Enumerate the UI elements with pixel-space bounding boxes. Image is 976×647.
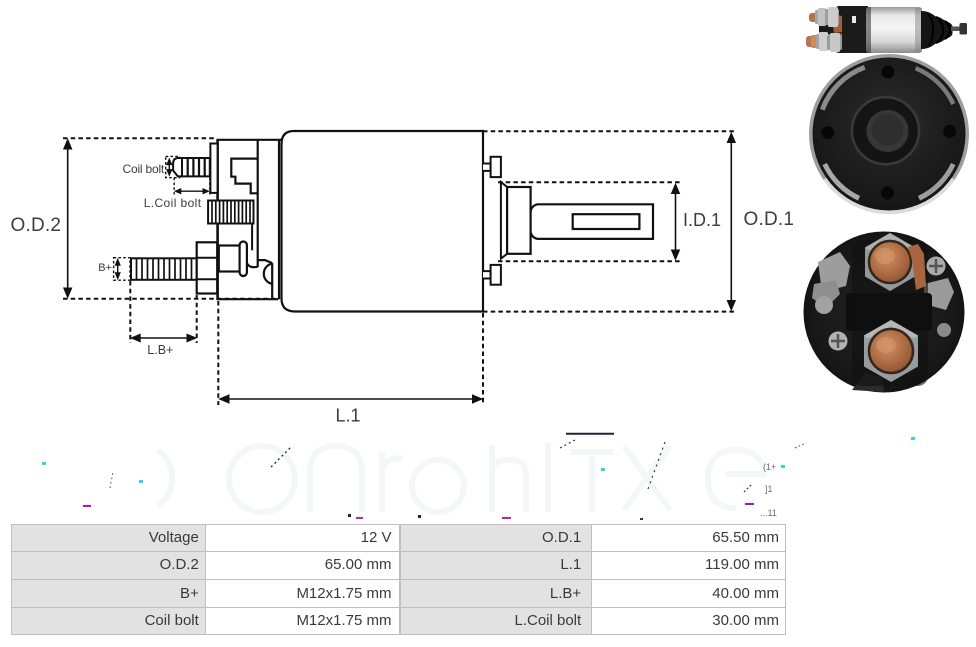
L.Coil bolt fixing thread xyxy=(208,201,253,224)
plunger lens bulge xyxy=(264,264,272,284)
L.1 right extension xyxy=(482,313,484,405)
shaft slot xyxy=(573,214,640,229)
flange top edge xyxy=(216,139,282,141)
copper plate on housing xyxy=(831,14,842,33)
photo 3 : solenoid front view xyxy=(804,232,965,393)
cap inner vertical xyxy=(257,140,259,267)
center block xyxy=(846,293,932,331)
L.B+ left extension xyxy=(129,281,131,343)
coil bolt thread lines xyxy=(188,158,205,176)
svg-text:B+: B+ xyxy=(98,262,112,274)
dim B+ xyxy=(117,263,119,275)
L.Coil bolt left extension xyxy=(173,178,175,195)
L.Coil bolt thread lines xyxy=(212,201,250,224)
coil bolt bracket tab xyxy=(210,144,217,193)
Coil bolt dashed gauge box xyxy=(166,156,180,177)
hex nut flats xyxy=(197,258,218,280)
dimension labels xyxy=(11,162,795,426)
flange bottom edge xyxy=(216,298,278,300)
O.D.2 bottom extension xyxy=(63,298,279,300)
top copper pin xyxy=(809,13,824,22)
dimension lines xyxy=(64,133,736,403)
svg-text:(1+: (1+ xyxy=(763,462,776,472)
dim L.B+ xyxy=(137,337,190,339)
I.D.1 bottom extension xyxy=(498,260,681,262)
plunger pin xyxy=(951,27,964,32)
bottom nuts xyxy=(816,34,830,49)
plunger shaft xyxy=(531,204,653,239)
svg-text:]1: ]1 xyxy=(765,484,773,494)
black switch housing xyxy=(819,6,868,53)
top nuts xyxy=(815,10,828,24)
bottom copper stud xyxy=(806,36,822,47)
B+ dashed gauge box xyxy=(114,258,130,281)
body outline xyxy=(282,131,484,312)
svg-text:L.B+: L.B+ xyxy=(147,343,173,357)
svg-text:O.D.1: O.D.1 xyxy=(744,209,795,230)
svg-text:Coil bolt: Coil bolt xyxy=(123,162,165,176)
L.1 left extension xyxy=(217,301,219,405)
flange plate left edge xyxy=(216,140,219,299)
B+ hex nut xyxy=(197,242,218,293)
moving contact disc xyxy=(240,242,247,277)
notch chamfer xyxy=(258,260,273,263)
svg-text:...11: ...11 xyxy=(760,508,777,518)
bushing xyxy=(507,187,530,254)
photo 2 : solenoid rear view xyxy=(809,54,969,214)
dim O.D.1 xyxy=(730,140,732,303)
notch right edge xyxy=(271,263,273,299)
O.D.1 bottom extension xyxy=(483,311,737,313)
svg-text:I.D.1: I.D.1 xyxy=(683,210,721,230)
watermark dark remains xyxy=(110,434,806,492)
O.D.2 top extension xyxy=(63,137,216,139)
contact post xyxy=(219,246,240,272)
B+ thread lines xyxy=(137,258,192,280)
svg-text:L.Coil bolt: L.Coil bolt xyxy=(144,196,202,210)
screws xyxy=(829,332,848,351)
dim L.Coil bolt xyxy=(179,190,204,192)
O.D.1 top extension xyxy=(483,130,737,132)
dim L.1 xyxy=(226,398,476,400)
copper strap xyxy=(908,244,926,290)
end cap tab bottom xyxy=(483,271,491,278)
bottom terminal xyxy=(864,320,918,382)
spec table xyxy=(0,0,1,1)
L.B+ right extension xyxy=(196,295,198,343)
coil bolt (top stud) xyxy=(173,158,210,176)
B+ stud thread xyxy=(131,258,197,280)
photo 1 : solenoid side view xyxy=(806,6,967,53)
dim O.D.2 xyxy=(67,146,69,291)
watermark color specks xyxy=(42,437,915,520)
solenoid body drawing xyxy=(282,131,484,312)
coil terminal staircase xyxy=(231,159,257,194)
svg-text:O.D.2: O.D.2 xyxy=(11,215,62,236)
metallic patches xyxy=(818,252,850,292)
I.D.1 top extension xyxy=(498,181,681,183)
chrome cylinder xyxy=(866,7,922,53)
top terminal xyxy=(865,233,915,291)
cap right edge xyxy=(278,140,280,299)
end cap tab top xyxy=(483,164,491,171)
dim Coil bolt xyxy=(168,162,170,172)
thread edge drop line xyxy=(251,224,253,251)
extension dashed lines xyxy=(63,131,737,405)
hammock curve xyxy=(247,263,258,267)
bushing collar xyxy=(501,182,507,259)
svg-text:L.1: L.1 xyxy=(336,406,361,426)
marking xyxy=(852,16,856,23)
dim I.D.1 xyxy=(675,190,677,254)
watermark ghost letters xyxy=(158,443,764,512)
boot xyxy=(921,11,953,49)
L.Coil bolt right extension xyxy=(209,178,211,195)
